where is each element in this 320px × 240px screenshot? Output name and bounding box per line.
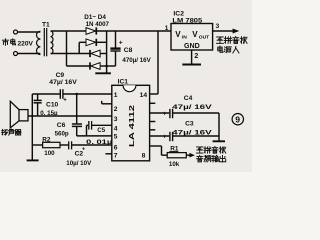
capacitor C2: [68, 141, 70, 149]
wire: bus to R2: [32, 144, 42, 146]
capacitor C9 (series): [59, 89, 61, 99]
svg-text:C8: C8: [124, 47, 133, 54]
junction: rail to C6: [75, 93, 78, 96]
svg-text:220V: 220V: [18, 41, 34, 48]
svg-text:3: 3: [216, 23, 220, 30]
svg-text:+: +: [119, 40, 123, 47]
capacitor C4: [169, 109, 171, 118]
svg-text:C5: C5: [97, 127, 105, 134]
wire: top supply rail (secondary top to IC2 pin1): [51, 30, 171, 32]
svg-text:1: 1: [114, 92, 118, 99]
wire: lower input rail: [32, 93, 60, 95]
svg-text:47µ/ 16V: 47µ/ 16V: [172, 129, 212, 136]
wire: rail drop to IC1 pin14: [157, 31, 159, 94]
wire: R2 to C2: [60, 144, 68, 146]
diode D3: [89, 50, 91, 57]
wire: row to D4 anode: [67, 65, 91, 67]
wire: mains top to transformer: [18, 31, 41, 33]
ground: IC2: [182, 64, 201, 66]
svg-text:47µ/ 16V: 47µ/ 16V: [172, 104, 212, 111]
wire: C6 bottom elbow to pin5 row: [76, 127, 78, 136]
diode D4: [89, 62, 91, 69]
svg-text:IC2: IC2: [173, 11, 184, 18]
label: mains 220V: [2, 39, 33, 48]
wire: speaker row to IC1 pin3: [28, 115, 112, 117]
wire: C2 to IC1 pin6: [72, 144, 112, 146]
wire: D2 anode drop to row3: [79, 41, 86, 43]
wire: left bridge bus vertical: [66, 31, 68, 66]
svg-text:6: 6: [114, 145, 118, 152]
svg-text:T1: T1: [42, 21, 50, 28]
svg-text:1N 4007: 1N 4007: [86, 21, 110, 28]
svg-text:10k: 10k: [169, 161, 180, 168]
wire: secondary bottom row to D3: [51, 53, 90, 55]
svg-text:V: V: [175, 30, 181, 39]
terminal: mains input bottom circle: [14, 52, 18, 56]
svg-text:14: 14: [140, 92, 148, 99]
svg-text:C10: C10: [46, 102, 59, 109]
wire: C4 to right bus: [173, 112, 219, 114]
svg-text:+: +: [63, 98, 67, 104]
capacitor C3: [169, 132, 171, 141]
svg-text:2: 2: [114, 106, 118, 113]
op-amp IC2 LM7805 box: [171, 24, 213, 51]
node 9 circled: [232, 114, 243, 125]
diode D2: [86, 39, 96, 46]
svg-text:LA 4112: LA 4112: [127, 105, 136, 147]
wire: C5 loop riser: [86, 125, 88, 136]
wire: C10 top stub: [37, 94, 39, 100]
wire: C3 to right bus: [173, 135, 219, 137]
wire: D4 row to C8 bottom: [100, 65, 115, 67]
wire: D3 to right bus: [100, 53, 107, 55]
label: to pinyin board (top): [217, 36, 247, 43]
svg-text:470µ/ 16V: 470µ/ 16V: [122, 57, 151, 64]
wire: IC1 to C4: [150, 112, 170, 114]
label: to pinyin board (bottom): [196, 146, 225, 153]
svg-text:100: 100: [44, 150, 55, 157]
svg-text:9: 9: [235, 115, 240, 125]
arrowhead: audio out: [189, 153, 195, 158]
svg-text:C6: C6: [57, 122, 66, 129]
transformer T1 secondary winding: [51, 31, 53, 54]
capacitor C6: [72, 123, 82, 125]
label: audio output: [197, 155, 226, 162]
wire: IC1 to C3: [150, 135, 170, 137]
stub: IC1 pin7: [105, 153, 111, 155]
ground: left bus: [27, 159, 39, 161]
svg-text:5: 5: [114, 134, 118, 141]
svg-text:D1~ D4: D1~ D4: [84, 14, 106, 21]
svg-text:2: 2: [194, 53, 198, 60]
svg-text:V: V: [192, 30, 198, 39]
svg-text:IC1: IC1: [118, 79, 129, 86]
svg-text:LM 7805: LM 7805: [172, 18, 202, 25]
ground: bridge rectifier: [95, 72, 111, 74]
speaker: [19, 110, 28, 121]
transformer T1 primary winding: [37, 31, 41, 54]
svg-text:1: 1: [165, 25, 169, 32]
svg-text:3: 3: [114, 116, 118, 123]
svg-text:GND: GND: [184, 42, 200, 50]
svg-text:7: 7: [114, 153, 118, 160]
wire: D2 cathode to right bus: [97, 41, 107, 43]
arrowhead: power out: [233, 29, 240, 34]
svg-text:47µ/ 16V: 47µ/ 16V: [49, 79, 77, 86]
wire: left bus vertical: [31, 94, 33, 160]
resistor R1: [167, 153, 186, 158]
svg-text:IN: IN: [182, 34, 187, 40]
ground: output bus: [213, 140, 225, 142]
resistor R2: [43, 142, 60, 147]
svg-text:C4: C4: [184, 95, 193, 102]
svg-text:+: +: [163, 110, 167, 117]
svg-text:C9: C9: [56, 72, 65, 79]
svg-text:+: +: [163, 133, 167, 140]
stub: IC1 right side pins: [150, 102, 156, 104]
wire: right bridge bus vertical: [106, 31, 108, 73]
wire: C8 bottom stub: [115, 51, 117, 66]
wire: IC2 output with arrow: [213, 30, 234, 32]
wire: IC1 pin14 to riser: [150, 93, 158, 95]
svg-text:C3: C3: [185, 120, 194, 127]
svg-text:OUT: OUT: [199, 34, 209, 40]
capacitor C10: [34, 99, 42, 101]
wire: IC1 pin8 jog to R1: [150, 145, 162, 147]
label: speaker (yangshengqi): [2, 129, 21, 135]
wire: C10 bottom stub: [37, 103, 39, 116]
wire: C6 riser: [76, 94, 78, 124]
diode D1: [86, 28, 96, 35]
label: power input (top): [218, 46, 239, 53]
wire: rail drop to C8: [115, 31, 117, 48]
svg-text:10µ/ 10V: 10µ/ 10V: [66, 160, 92, 167]
capacitor C8: [110, 47, 120, 49]
wire: R1 output: [186, 154, 190, 156]
junction: bridge output node: [105, 65, 108, 68]
svg-text:4: 4: [114, 126, 118, 133]
terminal: mains input top circle: [14, 30, 18, 34]
wire: C5 to IC1 pin4: [92, 124, 112, 126]
svg-text:R2: R2: [42, 137, 51, 144]
stub: IC1 pin2: [102, 103, 112, 105]
transformer T1 core: [43, 28, 45, 56]
wire: right output bus: [218, 113, 220, 141]
svg-text:560p: 560p: [55, 130, 69, 137]
capacitor C5: [88, 121, 90, 130]
junction: speaker node: [31, 115, 33, 117]
wire: IC2 GND drop: [191, 50, 193, 64]
wire: mains bottom to transformer: [18, 53, 41, 55]
op-amp IC1 LA4112 box: [112, 85, 150, 161]
notch of IC1: [123, 85, 136, 91]
svg-text:8: 8: [142, 153, 146, 160]
